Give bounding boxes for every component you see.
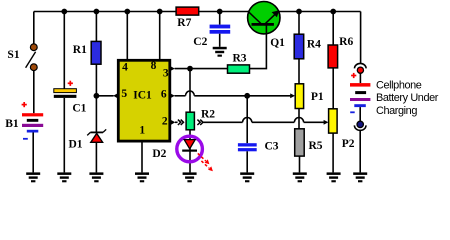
ground (C3) bbox=[240, 172, 254, 182]
wire: R4 to P1 bbox=[298, 59, 300, 84]
ground (battery -) bbox=[353, 172, 367, 182]
chevrons left of R2 bbox=[178, 120, 184, 125]
cellphone battery bars bbox=[350, 83, 370, 107]
wire: rail drop to S1 bbox=[33, 12, 35, 45]
pin 3 connector wedge bbox=[171, 66, 175, 71]
svg-text:8: 8 bbox=[151, 60, 157, 72]
battery + terminal socket arc bbox=[355, 63, 367, 68]
arrowhead into P2 wiper bbox=[324, 120, 329, 125]
ground (R5) bbox=[293, 172, 307, 182]
svg-text:D1: D1 bbox=[68, 139, 82, 151]
potentiometer P1 bbox=[295, 84, 303, 109]
capacitor C1 bbox=[54, 89, 77, 98]
svg-text:R1: R1 bbox=[73, 44, 87, 56]
ground (D2) bbox=[183, 172, 197, 182]
pin 2 connector wedge bbox=[171, 120, 175, 125]
zener diode D1 bbox=[87, 129, 106, 142]
capacitor C3 bbox=[238, 143, 257, 151]
node: rail junction C2 bbox=[217, 9, 223, 15]
chevrons right of R2 bbox=[197, 120, 203, 125]
wire hop over P1/R5 column bbox=[294, 118, 303, 123]
wire: P1 to R5 bbox=[298, 109, 300, 129]
svg-text:6: 6 bbox=[161, 88, 167, 100]
svg-text:P1: P1 bbox=[311, 91, 324, 103]
svg-text:3: 3 bbox=[163, 67, 169, 79]
wire: + terminal to battery bar bbox=[359, 73, 361, 83]
node: rail junction R1 bbox=[94, 9, 100, 15]
wire: - terminal to ground bbox=[359, 130, 361, 173]
wire: R6 to P2 bbox=[332, 68, 334, 109]
battery B1 bbox=[22, 113, 43, 132]
svg-text:Q1: Q1 bbox=[270, 37, 285, 49]
wire: R2 to C3 hop bbox=[203, 121, 242, 123]
resistor R7 bbox=[176, 7, 199, 15]
svg-text:2: 2 bbox=[162, 115, 168, 127]
node: pin3 wire / R2 junction bbox=[187, 66, 193, 72]
wire: node A to D1 bbox=[95, 96, 97, 133]
label B1 minus sign bbox=[23, 138, 28, 140]
label B1 plus sign bbox=[22, 102, 27, 107]
svg-text:R3: R3 bbox=[232, 52, 246, 64]
wire: R5 to ground bbox=[299, 156, 301, 172]
wire: rail to C1 bbox=[63, 12, 65, 90]
svg-text:R7: R7 bbox=[177, 17, 191, 29]
battery - terminal socket arc bbox=[354, 125, 366, 130]
annotation: Cellphone Battery Under Charging bbox=[376, 80, 439, 117]
wire: rail to R6 bbox=[332, 12, 334, 46]
resistor R5 bbox=[295, 129, 305, 156]
ground (P2) bbox=[327, 172, 341, 182]
label C1 plus sign bbox=[68, 81, 73, 86]
node: rail junction R4 bbox=[296, 9, 302, 15]
wire: pin 2 stub bbox=[175, 121, 178, 123]
battery - terminal plug dot bbox=[357, 121, 363, 127]
wire: pin 3 to R3 bbox=[175, 68, 228, 70]
svg-text:IC1: IC1 bbox=[133, 90, 152, 102]
svg-text:4: 4 bbox=[122, 61, 128, 73]
wire: S1 to B1 bbox=[33, 71, 35, 114]
wire hop over C3 column bbox=[243, 118, 252, 123]
wire: run to P2 wiper bbox=[304, 121, 324, 123]
resistor R4 bbox=[294, 34, 304, 59]
svg-text:Cellphone: Cellphone bbox=[376, 80, 422, 92]
node: rail junction R6 bbox=[330, 9, 336, 15]
svg-text:P2: P2 bbox=[342, 138, 355, 150]
wire: rail to IC1 pin 8 bbox=[159, 12, 161, 61]
LED light arrows bbox=[198, 153, 213, 171]
wire: rail drop to battery + terminal bbox=[360, 12, 362, 64]
wire: rail to R1 bbox=[95, 12, 97, 42]
ground (IC1 pin 1) bbox=[135, 172, 149, 182]
wire: IC1 pin 1 to ground bbox=[141, 141, 143, 172]
wire: C1 to ground bbox=[63, 98, 65, 172]
svg-text:C2: C2 bbox=[193, 36, 207, 48]
svg-text:R6: R6 bbox=[339, 36, 353, 48]
wire: rail to C2 bbox=[219, 12, 221, 25]
node: rail junction pin 8 bbox=[157, 9, 163, 15]
svg-text:1: 1 bbox=[139, 124, 145, 136]
wire: rail to R4 bbox=[298, 12, 300, 35]
wire: junction down to R2 bbox=[189, 69, 191, 113]
wire: run to P1 hop bbox=[252, 121, 295, 123]
LED D2 bbox=[177, 136, 203, 162]
wire: R3 to Q1 base bbox=[250, 33, 267, 69]
pin 6 connector wedge bbox=[171, 94, 175, 99]
svg-text:5: 5 bbox=[121, 88, 127, 100]
svg-text:C1: C1 bbox=[72, 103, 86, 115]
wire: top supply rail bbox=[34, 11, 361, 13]
svg-text:R4: R4 bbox=[307, 39, 321, 51]
node: rail junction C1 bbox=[61, 9, 67, 15]
resistor R1 bbox=[91, 41, 101, 64]
arrowhead into P1 wiper bbox=[290, 93, 295, 98]
svg-text:B1: B1 bbox=[5, 118, 19, 130]
wire: R2 to D2 and ground bbox=[189, 130, 191, 173]
wire: R1 to node A bbox=[95, 64, 97, 96]
wire: P2 to ground bbox=[332, 133, 334, 172]
resistor R2 bbox=[186, 112, 194, 130]
wire: B1 to ground bbox=[32, 133, 34, 173]
wire: battery bar to - terminal bbox=[359, 107, 361, 121]
wire: rail to IC1 pin 4 bbox=[126, 12, 128, 61]
op-amp/timer IC1 body bbox=[118, 60, 170, 141]
pin 5 connector wedge bbox=[113, 93, 117, 98]
potentiometer P2 bbox=[329, 109, 338, 133]
wire: pin6 junction to C3 bbox=[246, 96, 248, 143]
node A: R1/D1/pin5 junction bbox=[94, 93, 100, 99]
svg-text:R2: R2 bbox=[201, 108, 215, 120]
resistor R6 bbox=[328, 45, 338, 68]
wire: pin 6 to hop bbox=[175, 95, 186, 97]
label battery plus sign bbox=[351, 73, 356, 78]
wire hop over R2 column bbox=[186, 91, 195, 96]
resistor R3 bbox=[228, 65, 250, 73]
wire: D1 to ground bbox=[95, 142, 97, 172]
ground (C2) bbox=[213, 47, 227, 57]
svg-text:S1: S1 bbox=[7, 49, 19, 61]
svg-text:C3: C3 bbox=[264, 141, 278, 153]
wire: C3 to ground bbox=[246, 151, 248, 172]
switch S1 bbox=[26, 44, 38, 71]
wire: C2 to ground bbox=[219, 34, 221, 47]
ground (C1) bbox=[57, 172, 71, 182]
wire: pin 6 run to P1 wiper bbox=[194, 95, 290, 97]
battery + terminal plug dot bbox=[357, 67, 363, 73]
svg-text:Battery Under: Battery Under bbox=[376, 92, 439, 104]
wire: node A to IC1 pin 5 bbox=[96, 95, 113, 97]
svg-text:D2: D2 bbox=[152, 148, 166, 160]
capacitor C2 bbox=[210, 25, 231, 34]
ground (D1) bbox=[89, 172, 103, 182]
svg-text:Charging: Charging bbox=[376, 105, 417, 117]
node: rail junction pin 4 bbox=[124, 9, 130, 15]
node: pin6 wire / C3 junction bbox=[244, 93, 250, 99]
transistor Q1 bbox=[248, 2, 280, 35]
label battery minus sign bbox=[350, 111, 355, 113]
ground (B1) bbox=[26, 172, 40, 182]
svg-text:R5: R5 bbox=[308, 140, 322, 152]
